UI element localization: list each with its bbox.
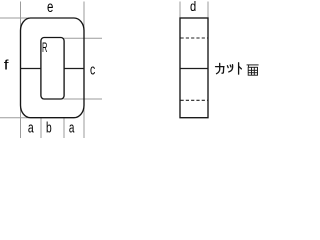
- katakana TO of カット面: [239, 63, 242, 74]
- extension line bottom edge leftwards (y=117.7): [0, 117, 30, 119]
- svg-text:a: a: [69, 119, 75, 136]
- svg-text:a: a: [28, 119, 34, 136]
- core outer outline (front view rounded rectangle): [21, 18, 85, 118]
- hidden line window top (dashed): [181, 37, 209, 39]
- extension line side-view right top (x=208): [207, 2, 209, 19]
- svg-text:b: b: [46, 119, 52, 136]
- katakana KA of カット面: [216, 63, 224, 73]
- extension line right edge top (x=84): [83, 2, 85, 30]
- svg-text:d: d: [190, 0, 196, 14]
- extension line side-view left top (x=180): [179, 2, 181, 19]
- svg-text:f: f: [4, 57, 9, 73]
- cut line right leg: [64, 68, 84, 70]
- svg-text:R: R: [42, 39, 47, 55]
- cut line side view: [180, 68, 208, 70]
- hidden line window bottom (dashed): [181, 99, 209, 101]
- side view rectangle: [180, 18, 208, 118]
- core window (inner rounded rectangle): [41, 38, 64, 100]
- extension line top edge leftwards (y=18): [0, 17, 30, 19]
- svg-text:e: e: [47, 0, 53, 16]
- katakana small TSU of カット面: [227, 65, 232, 72]
- cut line left leg: [21, 68, 41, 70]
- extension line left edge bottom: [20, 106, 22, 138]
- kanji MEN (face) of カット面: [247, 65, 259, 75]
- svg-text:c: c: [90, 62, 96, 79]
- extension line window left below (x=41): [40, 118, 42, 138]
- extension line window top rightwards (y=38.3): [64, 37, 103, 39]
- extension line window bottom rightwards (y=99): [64, 98, 103, 100]
- extension line right edge bottom: [83, 106, 85, 138]
- extension line window right below (x=64): [63, 118, 65, 138]
- extension line left edge top (x=20.5): [20, 2, 22, 30]
